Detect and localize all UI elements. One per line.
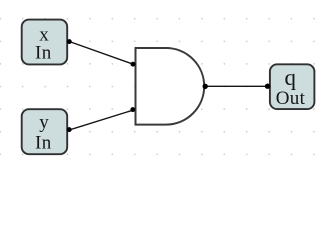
node: pin dot at AND gate input b	[130, 107, 135, 112]
wire W1: input x to AND gate top input	[69, 42, 133, 65]
output q (Out)	[270, 64, 315, 109]
wire W2: input y to AND gate bottom input	[69, 110, 133, 130]
input x (In)	[22, 20, 67, 65]
svg-text:In: In	[35, 133, 52, 154]
node: pin dot at AND gate input a	[131, 62, 136, 67]
svg-text:y: y	[39, 112, 49, 133]
node: pin dot at input y output terminal	[67, 127, 72, 132]
wire W3: AND gate output to output q	[205, 85, 268, 87]
input y (In)	[22, 109, 67, 154]
node: pin dot at input x output terminal	[67, 39, 72, 44]
svg-text:In: In	[35, 43, 52, 64]
AND gate U1	[136, 48, 205, 125]
node: pin dot at AND gate output	[203, 84, 208, 89]
svg-text:Out: Out	[276, 88, 306, 109]
node: pin dot at output q input terminal	[265, 84, 270, 89]
svg-text:q: q	[284, 65, 296, 90]
